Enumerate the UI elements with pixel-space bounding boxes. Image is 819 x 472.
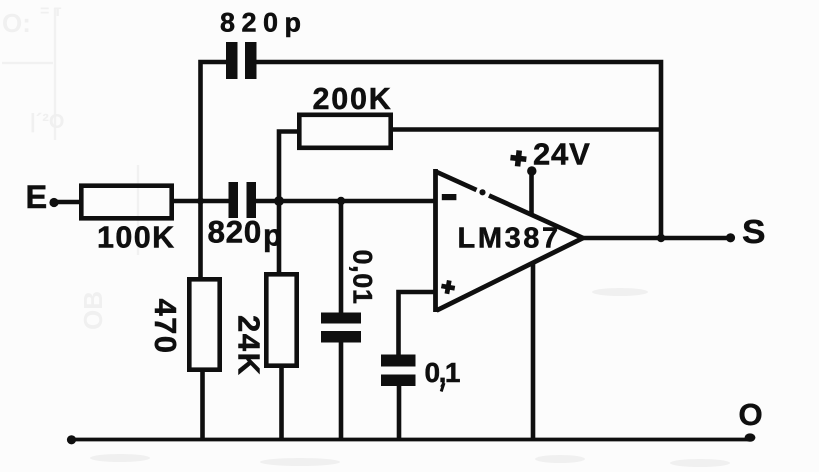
svg-text:0,1: 0,1 <box>425 357 460 388</box>
svg-text:|´²O: |´²O <box>30 111 64 133</box>
svg-text:24V: 24V <box>533 137 591 172</box>
svg-text:0,01: 0,01 <box>348 250 378 305</box>
svg-text:LM387: LM387 <box>458 223 561 255</box>
svg-text:24K: 24K <box>232 315 267 376</box>
svg-text:E: E <box>26 179 48 215</box>
svg-text:820p: 820p <box>220 8 308 38</box>
svg-text:100K: 100K <box>97 221 176 255</box>
svg-text:S: S <box>742 214 766 251</box>
svg-text:p: p <box>263 218 282 253</box>
svg-text:= т: = т <box>40 3 62 20</box>
svg-text:820: 820 <box>208 214 262 250</box>
svg-text:470: 470 <box>148 299 183 355</box>
svg-text:OB: OB <box>78 291 108 330</box>
svg-text:200K: 200K <box>313 82 393 116</box>
svg-text:O: O <box>739 397 763 432</box>
svg-text:O:: O: <box>2 8 31 38</box>
